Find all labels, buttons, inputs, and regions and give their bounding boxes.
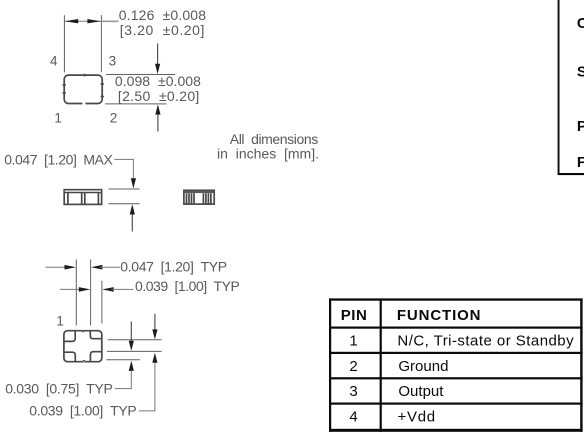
- bottom view package outline: [64, 331, 102, 362]
- height dimension text mm: [118, 88, 199, 104]
- pad height 0.039 text: [29, 403, 136, 419]
- pad pitch extension line 1: [75, 260, 77, 326]
- note all dimensions line 2: [217, 146, 319, 162]
- pin table cell 2 function: [398, 358, 448, 375]
- width dimension text mm: [120, 22, 205, 38]
- top view pin label 3: [109, 53, 117, 68]
- top view pin label 1: [54, 111, 62, 126]
- side view height lower arrow: [130, 204, 135, 231]
- pad height 0.039 lower arrow leader: [139, 353, 158, 411]
- width dimension extension line right: [100, 15, 102, 72]
- pad height 0.039 upper arrow: [152, 314, 157, 340]
- pin table cell 4 function: [398, 408, 436, 425]
- svg-text:S: S: [577, 64, 584, 81]
- cropped spec box letter C: [577, 15, 584, 32]
- pin table outer border right: [580, 298, 582, 431]
- pad pitch extension line 2: [90, 260, 92, 326]
- width dimension text inches: [119, 7, 206, 23]
- pin table cell 4: [349, 408, 357, 425]
- top view package outline: [63, 74, 104, 105]
- pin table outer border bottom: [329, 429, 583, 432]
- top view pin label 4: [50, 53, 58, 68]
- cropped spec box letter P: [577, 118, 584, 135]
- svg-text:1: 1: [54, 111, 62, 126]
- height dimension upper arrow: [155, 44, 160, 75]
- end view package body: [184, 190, 214, 204]
- svg-text:4: 4: [349, 408, 357, 425]
- svg-text:PIN: PIN: [341, 307, 367, 324]
- svg-text:+Vdd: +Vdd: [398, 408, 436, 425]
- side view max height text: [4, 152, 113, 168]
- bottom view pad 1 inner edge: [64, 331, 75, 342]
- svg-text:in inches [mm].: in inches [mm].: [217, 146, 319, 162]
- pin table header separator: [329, 327, 583, 329]
- top view pin label 2: [110, 111, 118, 126]
- height dimension extension line top: [106, 74, 175, 76]
- svg-text:0.126 ±0.008: 0.126 ±0.008: [119, 7, 206, 23]
- bottom view pad 3 inner edge: [90, 352, 101, 362]
- pad height 0.030 upper arrow: [129, 322, 134, 351]
- pad gap dimension line arrows: [46, 265, 121, 270]
- svg-text:2: 2: [349, 358, 357, 375]
- cropped spec box letter F: [577, 154, 584, 171]
- pin table outer border top: [329, 298, 583, 300]
- pin table row separator 3: [329, 377, 583, 379]
- height dimension text inches: [115, 73, 201, 89]
- svg-text:0.039 [1.00] TYP: 0.039 [1.00] TYP: [135, 278, 240, 294]
- pin table row separator 4: [329, 403, 583, 405]
- bottom view pad 2 inner edge: [90, 331, 102, 339]
- pin table header FUNCTION: [397, 307, 481, 324]
- svg-text:0.047 [1.20] MAX: 0.047 [1.20] MAX: [4, 152, 113, 168]
- pad height 0.030 text: [5, 381, 113, 397]
- pad width dimension line arrows: [60, 287, 134, 292]
- side view max height leader: [114, 159, 136, 188]
- pin table cell 3: [349, 383, 357, 400]
- height dimension extension line bottom: [105, 103, 166, 105]
- svg-text:0.098 ±0.008: 0.098 ±0.008: [115, 73, 201, 89]
- svg-text:3: 3: [349, 383, 357, 400]
- svg-text:2: 2: [110, 111, 118, 126]
- svg-text:3: 3: [109, 53, 117, 68]
- pad width dimension text: [135, 278, 240, 294]
- pin table cell 1: [349, 332, 357, 349]
- svg-text:0.047 [1.20] TYP: 0.047 [1.20] TYP: [120, 258, 227, 274]
- svg-text:Output: Output: [398, 383, 444, 400]
- svg-text:C: C: [577, 15, 584, 32]
- svg-text:[3.20 ±0.20]: [3.20 ±0.20]: [120, 22, 205, 38]
- pin table header PIN: [341, 307, 367, 324]
- pin table cell 1 function: [397, 332, 574, 349]
- svg-text:P: P: [577, 118, 584, 135]
- pin table row separator 2: [329, 352, 583, 354]
- cropped spec box left edge: [558, 0, 560, 175]
- cropped spec box letter S: [577, 64, 584, 81]
- width dimension line with outward arrows: [64, 19, 118, 23]
- pin table outer border left: [329, 298, 331, 431]
- svg-text:Ground: Ground: [398, 358, 448, 375]
- side view height extension line bottom: [109, 203, 140, 205]
- bottom view pin 1 label: [56, 314, 64, 329]
- bottom view pad 4 inner edge: [64, 352, 75, 362]
- svg-text:N/C, Tri-state or Standby: N/C, Tri-state or Standby: [397, 332, 574, 349]
- cropped spec box bottom edge: [558, 173, 584, 175]
- svg-text:1: 1: [56, 314, 64, 329]
- pad vertical extension line B: [107, 350, 162, 352]
- pin table cell 3 function: [398, 383, 444, 400]
- pad height 0.030 lower arrow leader: [115, 361, 134, 389]
- svg-text:All dimensions: All dimensions: [230, 131, 318, 147]
- svg-text:0.030 [0.75] TYP: 0.030 [0.75] TYP: [5, 381, 113, 397]
- svg-text:FUNCTION: FUNCTION: [397, 307, 481, 324]
- pad vertical extension line C: [106, 359, 139, 361]
- pad vertical extension line A: [108, 339, 162, 341]
- pin table cell 2: [349, 358, 357, 375]
- svg-text:F: F: [577, 154, 584, 171]
- note all dimensions line 1: [230, 131, 318, 147]
- side view front package body: [64, 190, 101, 205]
- width dimension extension line left: [63, 15, 65, 72]
- pin table column separator: [380, 298, 382, 431]
- pad gap dimension text: [120, 258, 227, 274]
- side view height extension line top: [109, 188, 140, 190]
- svg-text:[2.50 ±0.20]: [2.50 ±0.20]: [118, 88, 199, 104]
- svg-text:4: 4: [50, 53, 58, 68]
- height dimension lower arrow: [155, 104, 160, 131]
- svg-text:1: 1: [349, 332, 357, 349]
- pad width extension line 3: [101, 281, 103, 324]
- svg-text:0.039 [1.00] TYP: 0.039 [1.00] TYP: [29, 403, 136, 419]
